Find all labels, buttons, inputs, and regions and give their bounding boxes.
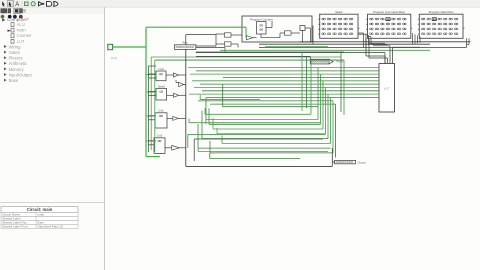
- svg-text:A: A: [15, 2, 19, 8]
